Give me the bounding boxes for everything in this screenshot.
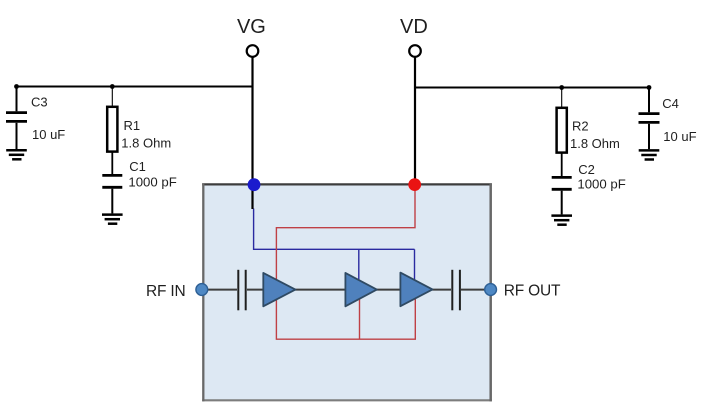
svg-text:RF IN: RF IN [146, 283, 185, 300]
svg-text:1000 pF: 1000 pF [128, 174, 176, 189]
svg-text:1.8 Ohm: 1.8 Ohm [121, 135, 171, 150]
svg-text:1.8 Ohm: 1.8 Ohm [570, 136, 620, 151]
svg-text:C1: C1 [129, 159, 146, 174]
svg-text:C2: C2 [578, 162, 595, 177]
svg-text:R2: R2 [572, 119, 589, 134]
svg-text:10 uF: 10 uF [32, 127, 65, 142]
svg-text:VG: VG [237, 16, 266, 38]
svg-text:10 uF: 10 uF [663, 129, 696, 144]
svg-text:C4: C4 [662, 96, 679, 111]
svg-text:R1: R1 [124, 118, 141, 133]
svg-text:RF OUT: RF OUT [504, 283, 561, 300]
svg-text:C3: C3 [31, 94, 48, 109]
svg-text:VD: VD [400, 16, 428, 38]
svg-text:1000 pF: 1000 pF [577, 177, 625, 192]
